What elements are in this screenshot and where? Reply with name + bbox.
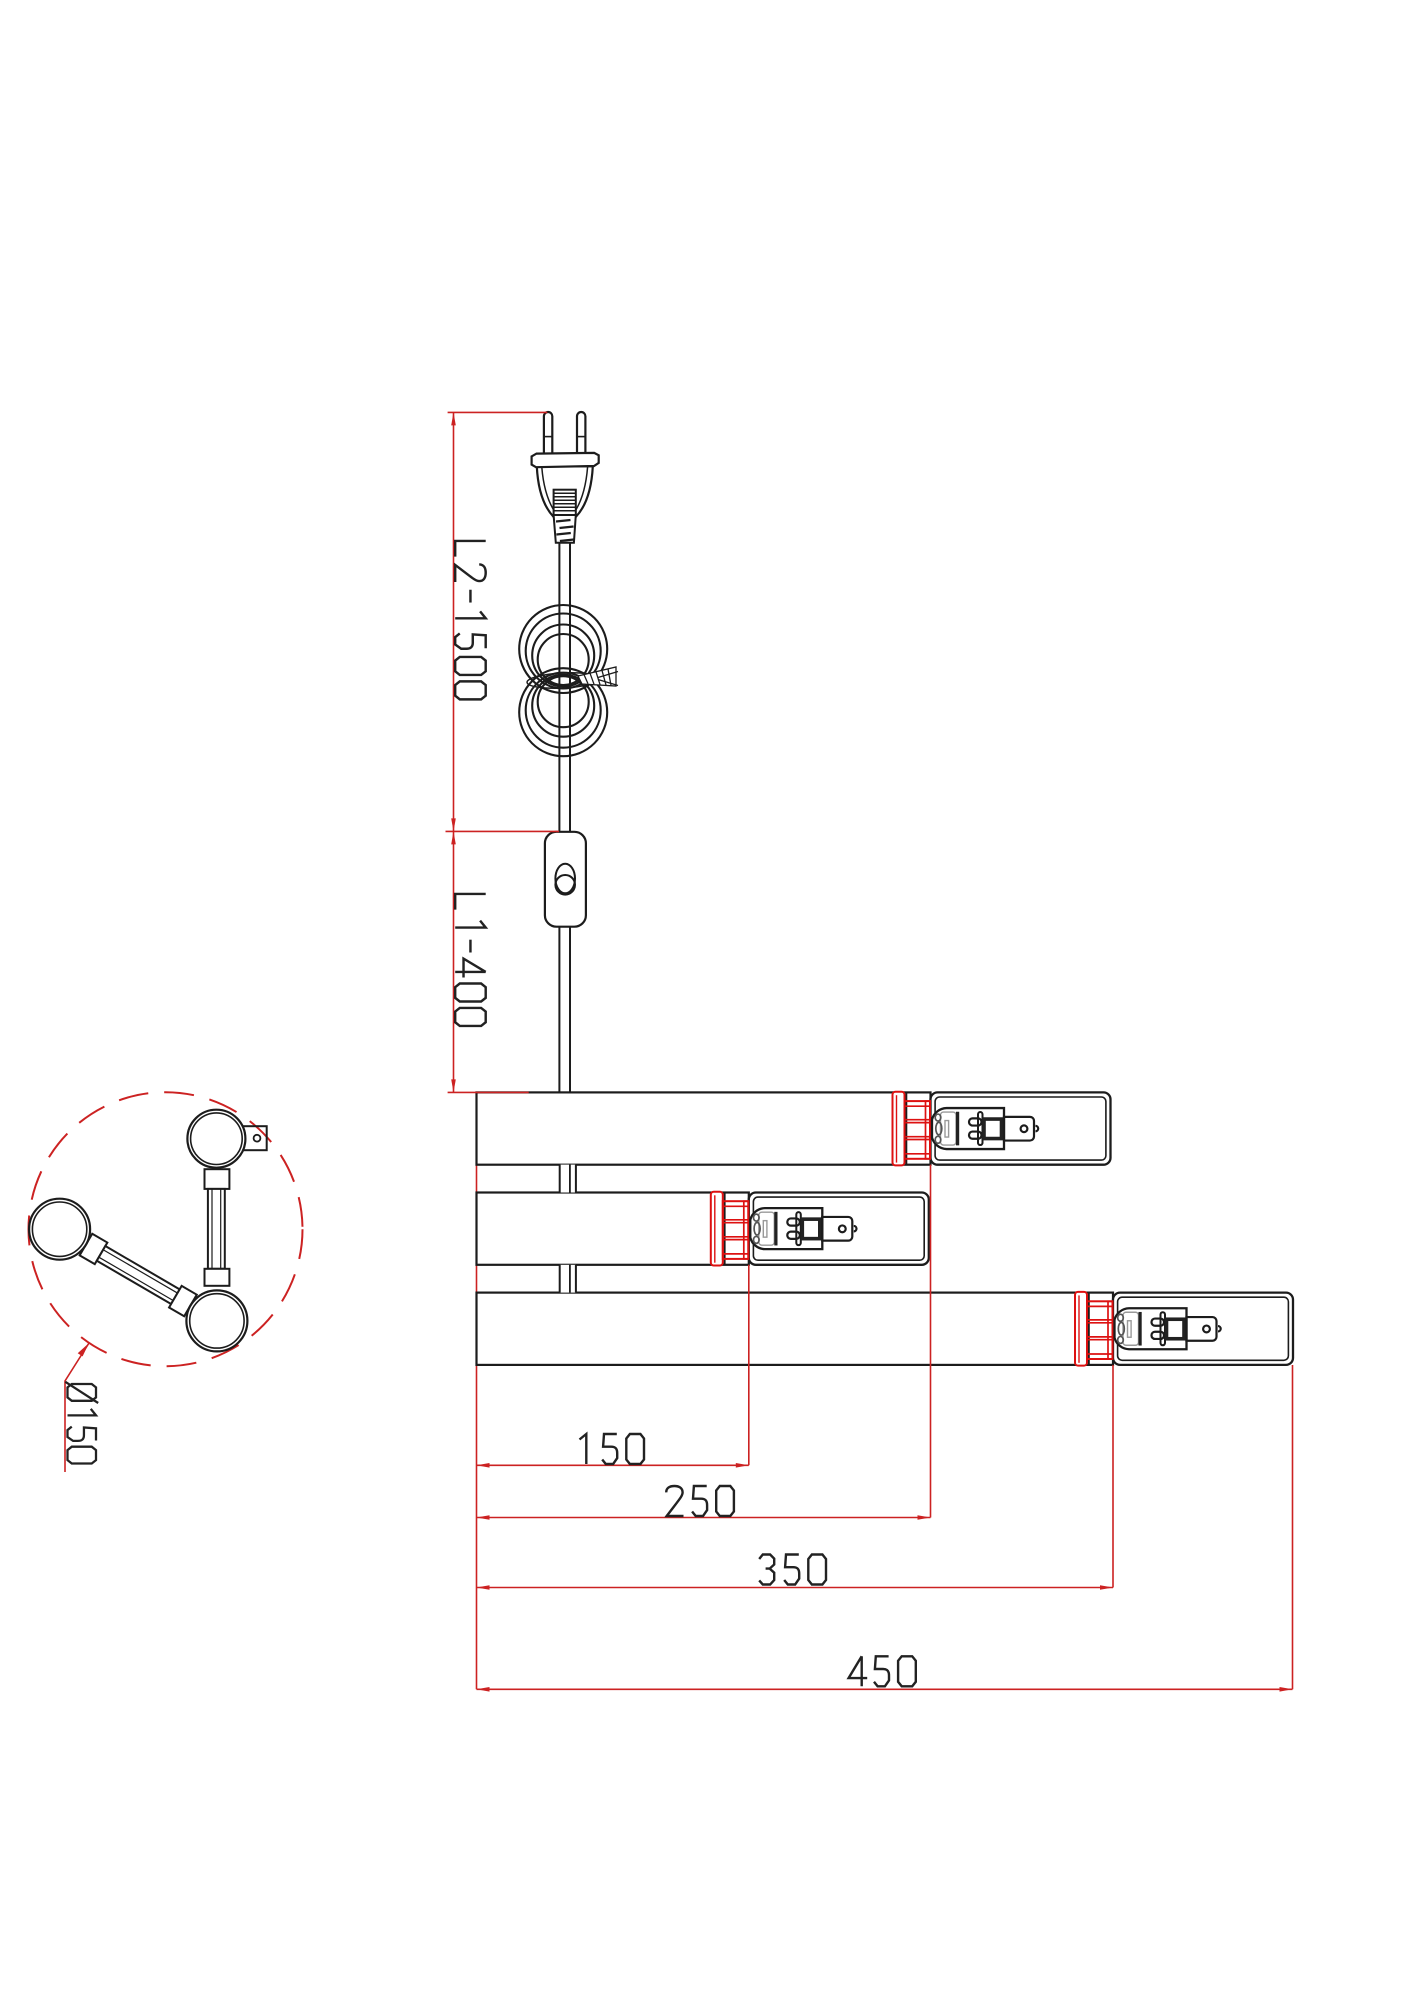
red holder bar1 <box>893 1092 931 1166</box>
red extension line 450 at x=1292.5 <box>1292 1365 1294 1689</box>
cord tie ribbon ends <box>578 667 618 686</box>
detail leader line <box>65 1343 89 1472</box>
cord tie band <box>527 671 600 690</box>
euro plug pins <box>544 412 586 454</box>
plug flange <box>532 453 599 467</box>
inline switch <box>545 832 586 927</box>
detail: vertical rod <box>208 1189 225 1269</box>
detail: sphere A <box>187 1110 245 1168</box>
lamp tube bar1 <box>931 1092 1111 1164</box>
arm bar 3 <box>477 1293 1114 1365</box>
detail: sphere C <box>29 1199 90 1260</box>
detail: diagonal rod collar C <box>80 1234 197 1317</box>
red extension line 150 at x=748.8 <box>748 1265 750 1466</box>
horizontal dimension 350 <box>477 1587 1114 1589</box>
horizontal dimension 150 <box>477 1464 749 1466</box>
red extension line 250 at x=930.5 <box>930 1165 932 1518</box>
plug body <box>537 466 593 517</box>
arrows vertical dims <box>451 412 456 425</box>
detail: vertical rod collar A <box>205 1169 230 1189</box>
stem rod between bar2 and bar3 <box>560 1265 576 1293</box>
detail: socket tab square on sphere A <box>243 1126 267 1150</box>
detail leader arrow <box>78 1343 89 1356</box>
red holder bar2 <box>711 1192 749 1266</box>
stem rod between bar1 and bar2 <box>560 1165 576 1193</box>
horizontal dimension 450 <box>477 1688 1293 1690</box>
cord from switch to bar1 <box>559 927 570 1093</box>
vertical dimension line L2/L1 <box>446 412 560 1092</box>
plug strain relief ribs <box>554 490 576 543</box>
horizontal dimension 250 <box>477 1517 931 1519</box>
coiled cord figure-8, bottom lobe <box>519 668 607 756</box>
dim text L2-1500 (vertical) <box>455 541 486 699</box>
dim text L1-400 (vertical) <box>455 894 486 1026</box>
detail: vertical rod collar B <box>205 1269 230 1286</box>
red extension line 350 at x=1113 <box>1112 1365 1114 1588</box>
G9 socket bar1 <box>932 1108 1038 1149</box>
arm bar 2 <box>477 1193 749 1265</box>
red holder bar3 <box>1075 1292 1113 1366</box>
lamp tube bar2 <box>749 1193 929 1265</box>
detail view dashed circle <box>29 1092 303 1366</box>
dim text Ø150 (vertical) <box>65 1382 98 1464</box>
lamp tube bar3 <box>1113 1293 1293 1365</box>
arm bar 1 <box>477 1092 931 1164</box>
cord from plug to switch <box>559 542 570 832</box>
detail: sphere B <box>186 1290 247 1351</box>
G9 socket bar2 <box>750 1208 856 1249</box>
red extension line at x=476.5 (under bars) <box>476 1093 478 1689</box>
coiled cord figure-8, top lobe <box>519 605 607 693</box>
G9 socket bar3 <box>1115 1308 1221 1349</box>
